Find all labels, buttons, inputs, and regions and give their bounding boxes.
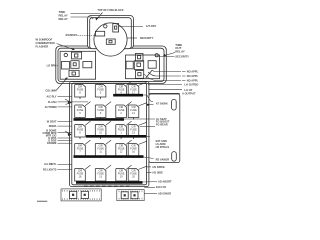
svg-text:A/C RLY: A/C RLY bbox=[47, 94, 57, 98]
svg-text:RELAY: RELAY bbox=[59, 17, 68, 21]
left relay block bbox=[60, 51, 96, 79]
svg-text:NO APPL: NO APPL bbox=[187, 79, 199, 83]
right relay cluster bbox=[126, 54, 160, 79]
arrow from combination flasher bbox=[57, 44, 74, 50]
relay box B inside circle bbox=[95, 24, 118, 45]
wire LT OUTBD bbox=[148, 83, 182, 85]
svg-text:RS VANOR: RS VANOR bbox=[156, 158, 170, 162]
terminal square R1 bbox=[121, 192, 128, 199]
wires NO APPL group bbox=[144, 70, 181, 81]
bus bar B row2 bbox=[74, 118, 125, 121]
leader wires from time delay relay label bbox=[71, 14, 101, 20]
fuse R2C1 bbox=[75, 105, 86, 118]
fuse R1C1 bbox=[75, 85, 86, 98]
svg-text:EOI LYD: EOI LYD bbox=[156, 185, 166, 189]
fuse R2C2 bbox=[95, 105, 106, 118]
svg-text:COLUMN: COLUMN bbox=[45, 89, 56, 93]
junction dot row2 wire bbox=[147, 104, 149, 106]
leader HS SIDE bbox=[147, 172, 152, 174]
svg-text:AUTODIM: AUTODIM bbox=[45, 105, 57, 109]
bus bar A row1 bbox=[113, 94, 143, 97]
ticks left connector bbox=[63, 190, 100, 200]
svg-text:A/T SHOWN: A/T SHOWN bbox=[156, 101, 168, 105]
svg-text:HS DRIVE: HS DRIVE bbox=[153, 165, 166, 169]
bus bar C row3 bbox=[86, 135, 146, 138]
fuse R4C2 bbox=[95, 144, 106, 157]
svg-text:W/SUNROOF: W/SUNROOF bbox=[66, 33, 78, 37]
fuse R4C1 bbox=[75, 144, 86, 157]
wire into panel label1 bbox=[143, 95, 153, 102]
svg-text:ROMA: ROMA bbox=[49, 124, 57, 128]
svg-text:TOP OF FUSE BLOCK: TOP OF FUSE BLOCK bbox=[98, 8, 125, 12]
fuse R5C4 bbox=[128, 169, 139, 182]
bottom left dash mark bbox=[37, 200, 47, 202]
arrow from COLUMN label bbox=[57, 78, 67, 90]
bottom stamp marks bbox=[84, 185, 130, 187]
terminal square L1 bbox=[70, 191, 77, 198]
svg-text:NO APPL: NO APPL bbox=[187, 74, 199, 78]
svg-text:SECURITY: SECURITY bbox=[140, 36, 154, 40]
bottom connector strip right bbox=[117, 190, 144, 201]
fuse R3C2 bbox=[95, 125, 106, 138]
fuse R5C2 bbox=[95, 169, 106, 182]
panel slot oval bottom bbox=[172, 152, 177, 162]
bus bar E row5 bbox=[76, 181, 143, 184]
fuse R3C1 bbox=[75, 125, 86, 138]
top dome tab around relay circle bbox=[88, 16, 134, 49]
fuse R4C3 bbox=[116, 144, 127, 157]
panel slot oval top bbox=[172, 99, 177, 110]
svg-text:AD ABORT: AD ABORT bbox=[158, 179, 172, 183]
fuse block lower body outline bbox=[70, 81, 149, 186]
wire to SECURITY bbox=[127, 37, 137, 39]
svg-text:LO RPM: LO RPM bbox=[47, 63, 57, 67]
svg-text:A/T-OFF: A/T-OFF bbox=[146, 24, 157, 28]
svg-text:LH HT: LH HT bbox=[184, 88, 192, 92]
fuse R1C3 bbox=[116, 85, 127, 95]
relay circle housing bbox=[94, 23, 127, 56]
svg-text:RS LIGHTS: RS LIGHTS bbox=[43, 168, 57, 172]
svg-text:SECURITY: SECURITY bbox=[175, 54, 189, 58]
svg-text:FLASHER: FLASHER bbox=[36, 45, 49, 49]
fuse R2C3 bbox=[116, 105, 127, 118]
svg-text:HA MINTL: HA MINTL bbox=[44, 162, 57, 166]
svg-text:NO APPL: NO APPL bbox=[187, 70, 199, 74]
svg-text:DROME: DROME bbox=[47, 141, 57, 145]
fuse R1C4 bbox=[128, 85, 139, 95]
wire A OUTPUT bbox=[149, 92, 180, 94]
bus bar D row4 bbox=[74, 155, 144, 158]
fuse R3C3 bbox=[116, 125, 127, 138]
relay pin dot bbox=[155, 54, 158, 57]
svg-text:FG REAR: FG REAR bbox=[156, 122, 168, 126]
fuse R2C4 bbox=[128, 105, 139, 118]
fuse R5C3 bbox=[116, 169, 127, 182]
svg-text:LH OUTBD: LH OUTBD bbox=[184, 83, 198, 87]
left big arrowhead row2 bbox=[65, 99, 71, 105]
wire to A/T-OFF bbox=[119, 26, 143, 28]
svg-text:FLASH: FLASH bbox=[48, 100, 57, 104]
arrow from top of fuse block bbox=[97, 13, 103, 20]
svg-text:W SUNROOF: W SUNROOF bbox=[36, 38, 53, 42]
svg-text:A OUTPUT: A OUTPUT bbox=[182, 91, 196, 95]
arrow from time out relay label bbox=[165, 53, 176, 56]
svg-text:HS RITALS: HS RITALS bbox=[156, 145, 170, 149]
terminal square L2 bbox=[81, 191, 88, 198]
svg-text:HS SIDE: HS SIDE bbox=[153, 170, 164, 174]
terminal square R2 bbox=[131, 192, 138, 199]
wire LT HTR bbox=[149, 89, 182, 91]
fuse R4C4 bbox=[128, 144, 139, 157]
bottom connector strip left bbox=[61, 189, 101, 201]
fuse R1C2 bbox=[95, 85, 106, 98]
svg-text:W SEAT: W SEAT bbox=[47, 119, 57, 123]
svg-text:AD IGNOR: AD IGNOR bbox=[158, 191, 171, 195]
left big arrowhead row3 bbox=[65, 131, 71, 135]
fuse R5C1 bbox=[75, 169, 86, 182]
fuse block upper body outline bbox=[56, 46, 167, 84]
svg-text:COMBINATION: COMBINATION bbox=[36, 41, 55, 45]
right side panel flange bbox=[149, 94, 180, 163]
fuse R3C4 bbox=[128, 125, 139, 138]
svg-text:RELAY: RELAY bbox=[175, 50, 185, 54]
screw dot inside circle bbox=[104, 25, 107, 28]
